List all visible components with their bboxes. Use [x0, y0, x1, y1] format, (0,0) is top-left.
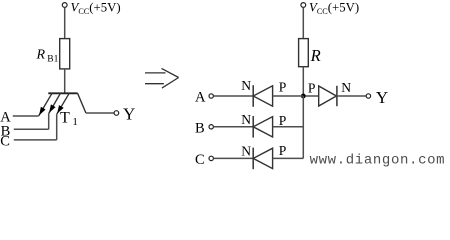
- svg-text:N: N: [341, 80, 351, 95]
- svg-text:P: P: [308, 81, 316, 96]
- svg-text:Y: Y: [123, 104, 135, 123]
- svg-text:Y: Y: [376, 88, 388, 107]
- svg-text:N: N: [241, 112, 251, 127]
- svg-text:B: B: [195, 121, 205, 137]
- svg-text:VCC(+5V): VCC(+5V): [309, 1, 359, 17]
- svg-text:B1: B1: [47, 54, 58, 64]
- svg-text:P: P: [279, 143, 287, 158]
- svg-text:C: C: [195, 152, 205, 168]
- svg-text:P: P: [279, 80, 287, 95]
- svg-text:N: N: [241, 143, 251, 158]
- svg-text:VCC(+5V): VCC(+5V): [71, 1, 121, 17]
- svg-text:1: 1: [72, 116, 78, 128]
- svg-text:R: R: [36, 47, 46, 62]
- svg-text:C: C: [0, 134, 10, 150]
- svg-text:R: R: [310, 46, 321, 65]
- svg-text:A: A: [195, 90, 206, 106]
- svg-text:P: P: [279, 113, 287, 128]
- svg-text:T: T: [60, 109, 70, 126]
- svg-text:N: N: [241, 78, 251, 93]
- svg-text:www.diangon.com: www.diangon.com: [310, 153, 446, 169]
